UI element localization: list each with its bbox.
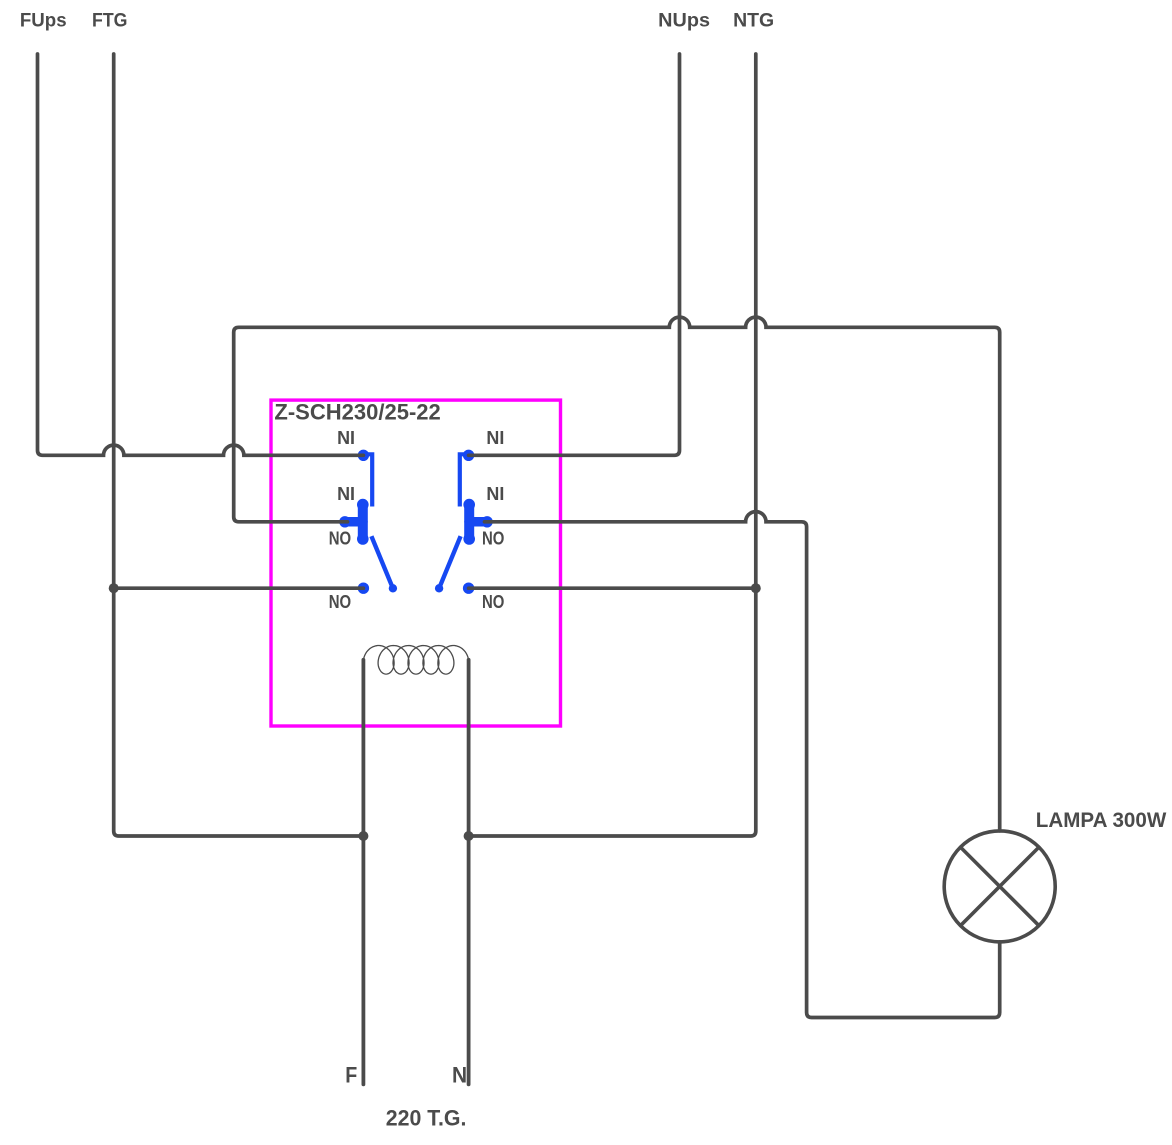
svg-text:LAMPA 300W: LAMPA 300W [1036, 808, 1167, 832]
S2 common stub [469, 517, 487, 527]
S1 NI terminal dot [358, 450, 369, 461]
wire top bus: S1 common riser up, across (hops over NUps, NTG), down to lamp top [234, 317, 1000, 831]
junction FTG / NO row [109, 583, 119, 593]
svg-text:FUps: FUps [20, 10, 67, 32]
junction coil F lead / FTG branch [358, 831, 368, 841]
svg-text:NI: NI [337, 483, 355, 504]
svg-text:FTG: FTG [92, 10, 128, 32]
wire FTG: drop to lower-left elbow then right to coil F lead junction [114, 54, 364, 836]
svg-text:Z-SCH230/25-22: Z-SCH230/25-22 [274, 400, 440, 425]
wire NO row right: S2 NO terminal to NTG junction [469, 586, 756, 590]
S1 NO terminal dot [358, 583, 369, 594]
junction coil N lead / NTG branch [464, 831, 474, 841]
wire FUps: drop then right to S1 NI terminal (hops over FTG and riser) [38, 54, 364, 455]
S2 fixed NI lead [460, 454, 467, 506]
wire coil F lead down to terminal F [361, 660, 365, 1085]
contact S1 left pole (blue) [339, 450, 397, 594]
svg-text:NTG: NTG [733, 10, 774, 32]
wire NO row left: FTG junction to S1 NO terminal [114, 586, 364, 590]
svg-text:NUps: NUps [658, 10, 710, 32]
S1 moving arm [371, 536, 393, 588]
wire S2 common to lamp return (hops over NTG) [485, 512, 1000, 1018]
lamp E1 [944, 831, 1055, 942]
svg-text:NO: NO [329, 528, 351, 549]
svg-text:220 T.G.: 220 T.G. [386, 1106, 467, 1131]
svg-text:NI: NI [486, 427, 504, 448]
relay coil L1 winding [363, 646, 468, 675]
junction NTG / NO row [751, 583, 761, 593]
relay K1 enclosure Z-SCH230/25-22 [271, 400, 561, 726]
svg-text:NO: NO [482, 528, 504, 549]
svg-text:NI: NI [486, 483, 504, 504]
svg-text:NO: NO [482, 591, 504, 612]
S1 fixed NI lead [365, 454, 372, 506]
wire NUps: drop then left to S2 NI terminal [469, 54, 680, 455]
svg-text:NI: NI [337, 427, 355, 448]
S2 NI terminal dot [463, 450, 474, 461]
wire coil N lead down to terminal N [467, 660, 471, 1085]
svg-text:F: F [345, 1063, 357, 1088]
S2 moving arm [439, 536, 461, 588]
svg-text:NO: NO [329, 591, 351, 612]
S1 common pivot bar [358, 505, 368, 539]
contact S2 right pole (blue) [435, 450, 493, 594]
S2 NO terminal dot [463, 583, 474, 594]
S2 common pivot bar [464, 505, 474, 539]
wire NTG: drop to lower-right elbow then left to coil N lead junction [469, 54, 756, 836]
svg-text:N: N [452, 1063, 467, 1088]
S1 common stub [345, 517, 363, 527]
